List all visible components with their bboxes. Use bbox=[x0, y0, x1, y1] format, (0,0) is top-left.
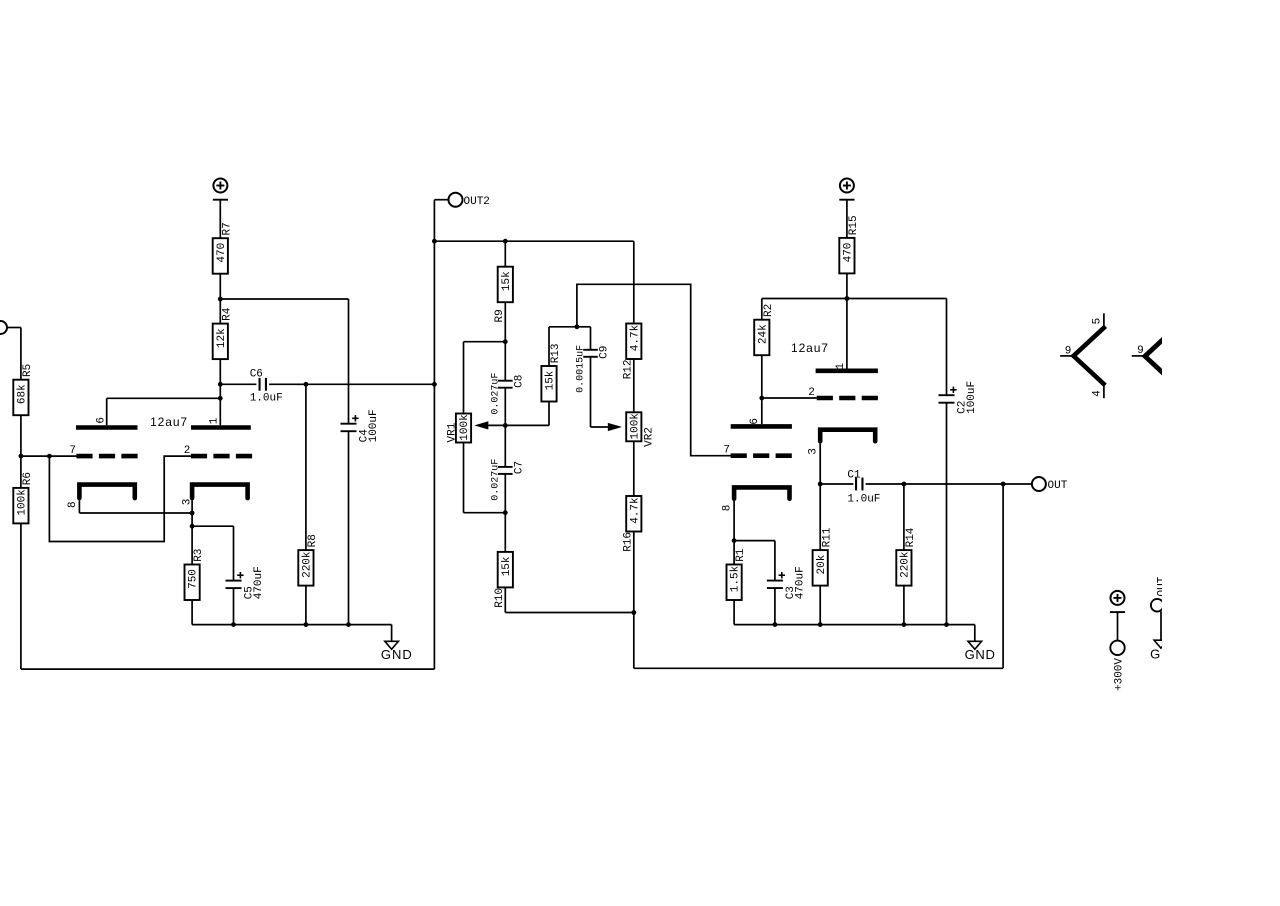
junction C5 rail bbox=[231, 622, 236, 627]
junction cathodes bbox=[190, 511, 195, 516]
wire down to C2 bbox=[946, 299, 948, 396]
svg-text:6: 6 bbox=[749, 418, 761, 425]
svg-text:8: 8 bbox=[722, 505, 734, 512]
svg-text:R10: R10 bbox=[494, 588, 506, 608]
svg-text:15k: 15k bbox=[501, 271, 513, 291]
wire VR2 to R16 bbox=[633, 441, 635, 496]
svg-text:470uF: 470uF bbox=[253, 566, 265, 599]
svg-text:R7: R7 bbox=[221, 222, 233, 235]
svg-text:220k: 220k bbox=[900, 551, 912, 578]
capacitor C7 bbox=[498, 466, 513, 468]
wire to C5 bbox=[192, 525, 233, 527]
junction R8 top bbox=[304, 382, 309, 387]
wire cathode8 right down bbox=[733, 501, 735, 541]
clipped connector circle bbox=[1151, 599, 1164, 612]
junction VR1 top bbox=[503, 339, 508, 344]
wire to R1 bbox=[733, 541, 735, 565]
wire C7 down bbox=[504, 474, 506, 513]
svg-text:12au7: 12au7 bbox=[791, 341, 829, 355]
junction R7/R4/C4 bbox=[218, 297, 223, 302]
wire to C7 bbox=[504, 425, 506, 467]
plate pin1 left tube bbox=[191, 425, 251, 430]
svg-text:2: 2 bbox=[184, 445, 191, 457]
power +V right bbox=[840, 179, 854, 193]
svg-text:R1: R1 bbox=[735, 548, 747, 562]
wire cathode3 down bbox=[191, 500, 193, 526]
connector OUT2 bbox=[449, 193, 463, 207]
resistor R10 bbox=[498, 552, 513, 588]
svg-text:470uF: 470uF bbox=[794, 566, 806, 599]
connector +300V bbox=[1110, 641, 1124, 655]
svg-text:20k: 20k bbox=[816, 554, 828, 574]
cathode pin8 right tube bbox=[734, 487, 789, 498]
input connector bbox=[0, 321, 7, 334]
junction C6 line bbox=[432, 382, 437, 387]
plate pin1 right tube bbox=[816, 368, 878, 373]
svg-text:24k: 24k bbox=[757, 324, 769, 344]
wire R5 to grid node bbox=[20, 415, 22, 456]
svg-text:R11: R11 bbox=[821, 527, 833, 547]
svg-text:C1: C1 bbox=[847, 469, 861, 481]
svg-text:12k: 12k bbox=[216, 328, 228, 348]
wire down to C9 bbox=[590, 327, 592, 350]
wire pin 5 bbox=[1103, 313, 1105, 327]
resistor R14 bbox=[896, 550, 911, 586]
wire to C2 bbox=[847, 298, 947, 300]
svg-text:3: 3 bbox=[808, 448, 820, 455]
capacitor C6 bbox=[258, 378, 260, 391]
wire power to R7 bbox=[219, 200, 221, 239]
wire C9 down bbox=[590, 357, 592, 427]
svg-text:C6: C6 bbox=[250, 368, 263, 380]
svg-text:750: 750 bbox=[188, 569, 200, 589]
junction R5/R6/grid bbox=[19, 454, 24, 459]
wire R9 to C8 node bbox=[504, 302, 506, 342]
svg-text:1.0uF: 1.0uF bbox=[847, 494, 880, 506]
svg-text:VR1: VR1 bbox=[446, 422, 458, 442]
wire R1 to rail bbox=[733, 600, 735, 625]
wire R16 down bbox=[633, 532, 635, 613]
wire C5 to rail bbox=[233, 588, 235, 625]
wire plate6 tie bbox=[107, 397, 221, 399]
svg-text:100k: 100k bbox=[629, 413, 641, 440]
wire rail to R9 bbox=[504, 241, 506, 267]
svg-text:OUT2: OUT2 bbox=[464, 196, 490, 208]
svg-text:15k: 15k bbox=[501, 556, 513, 576]
cathode pin8 left tube bbox=[79, 485, 134, 499]
wire to R11 bbox=[819, 484, 821, 550]
svg-text:GND: GND bbox=[381, 647, 413, 662]
power +300V symbol bbox=[1111, 591, 1125, 605]
svg-text:VR2: VR2 bbox=[643, 427, 655, 447]
junction R8 rail bbox=[304, 622, 309, 627]
resistor R3 bbox=[185, 565, 200, 601]
junction feedback/OUT bbox=[1001, 482, 1006, 487]
wire to GND bbox=[391, 625, 393, 642]
wire to VR2 wiper bbox=[591, 426, 611, 428]
plate pin6 left tube bbox=[76, 425, 138, 430]
wire R4 to C6 node bbox=[219, 359, 221, 384]
wire grid2 right bbox=[762, 397, 817, 399]
svg-text:1.0uF: 1.0uF bbox=[250, 393, 283, 405]
arrow VR1 wiper bbox=[477, 422, 487, 428]
wire R10 to R16 node bbox=[505, 612, 634, 614]
wire down to R5 bbox=[20, 328, 22, 380]
resistor R4 bbox=[213, 324, 228, 360]
ground left bbox=[385, 641, 399, 649]
wire to R3 bbox=[191, 526, 193, 564]
resistor R7 bbox=[213, 238, 228, 274]
wire to plate1 bbox=[219, 384, 221, 425]
cathode pin3 right tube bbox=[820, 430, 875, 442]
capacitor C8 bbox=[498, 380, 513, 382]
wire to C1 bbox=[820, 483, 853, 485]
svg-text:R16: R16 bbox=[622, 532, 634, 552]
svg-text:R8: R8 bbox=[307, 534, 319, 547]
wire to GND right bbox=[974, 625, 976, 642]
resistor R12 bbox=[626, 324, 641, 360]
wire to plate6 right bbox=[761, 398, 763, 424]
resistor R11 bbox=[813, 550, 828, 586]
svg-text:R13: R13 bbox=[550, 343, 562, 363]
wire down to C5 bbox=[233, 526, 235, 580]
junction C4 rail bbox=[346, 622, 351, 627]
wire C8 to wiper node bbox=[504, 388, 506, 426]
wire bottom feedback right bbox=[634, 667, 1003, 669]
resistor R16 bbox=[626, 496, 641, 532]
wire R13 to C9 node bbox=[549, 326, 577, 328]
wire to C8 bbox=[504, 342, 506, 381]
potentiometer VR2 bbox=[626, 412, 641, 441]
wire to OUT2 bbox=[434, 199, 448, 201]
wire to plate6 bbox=[106, 398, 108, 425]
power +V left bbox=[213, 179, 227, 193]
capacitor C5 bbox=[226, 580, 242, 582]
connector OUT bbox=[1032, 477, 1046, 491]
wire bottom feedback left bbox=[21, 668, 435, 670]
junction grid loop bbox=[47, 454, 52, 459]
wire R10 down bbox=[504, 587, 506, 612]
wire OUT2 rail bbox=[434, 240, 633, 242]
svg-text:C8: C8 bbox=[514, 375, 526, 388]
resistor R9 bbox=[498, 267, 513, 303]
svg-text:R2: R2 bbox=[763, 304, 775, 317]
junction R1/C3 bbox=[732, 538, 737, 543]
svg-text:4.7k: 4.7k bbox=[629, 497, 641, 524]
svg-text:0.0015uF: 0.0015uF bbox=[575, 345, 586, 393]
wire R6 down bbox=[20, 523, 22, 669]
wire R13 up bbox=[548, 327, 550, 366]
grid pin7 right tube bbox=[731, 453, 792, 458]
svg-text:R9: R9 bbox=[494, 309, 506, 322]
svg-text:12au7: 12au7 bbox=[150, 415, 188, 429]
junction R16 bottom bbox=[631, 610, 636, 615]
svg-text:+300V: +300V bbox=[1114, 658, 1126, 691]
wire OUT2 vertical bbox=[433, 200, 435, 669]
wire R3 to rail bbox=[191, 600, 193, 625]
heater symbol pins 4/5/9 bbox=[1074, 326, 1106, 385]
resistor R5 bbox=[13, 380, 28, 416]
junction plates bbox=[218, 396, 223, 401]
wire VR1 to C7 node bbox=[464, 512, 506, 514]
plate pin6 right tube bbox=[731, 424, 792, 429]
wire to R2 bbox=[762, 298, 847, 300]
wire down to VR1 bbox=[463, 342, 465, 414]
junction C1 line bbox=[818, 482, 823, 487]
svg-text:0.027uF: 0.027uF bbox=[491, 459, 502, 501]
wire C2 to rail bbox=[946, 403, 948, 625]
arrow VR2 wiper bbox=[609, 424, 619, 430]
wire VR1 bottom bbox=[463, 443, 465, 513]
junction wiper VR1 bbox=[503, 423, 508, 428]
svg-text:100uF: 100uF bbox=[966, 381, 978, 414]
svg-text:9: 9 bbox=[1065, 345, 1072, 357]
potentiometer VR1 bbox=[456, 414, 471, 443]
wire R8 to rail bbox=[305, 586, 307, 625]
capacitor C1 bbox=[855, 478, 857, 491]
junction R2/grid2/plate6 bbox=[759, 396, 764, 401]
svg-text:OUT: OUT bbox=[1048, 480, 1068, 492]
wire input to R5 bbox=[7, 327, 21, 329]
wire right ground rail bbox=[734, 624, 975, 626]
wire to C4 branch bbox=[220, 298, 348, 300]
wire grid2 loop bbox=[49, 456, 191, 541]
wire pin 9 heater2 bbox=[1132, 355, 1146, 357]
wire to C3 bbox=[734, 540, 775, 542]
wire cathode8 down bbox=[78, 500, 80, 513]
svg-text:R12: R12 bbox=[622, 359, 634, 379]
wire to R8 bbox=[305, 384, 307, 550]
wire to plate1 right bbox=[846, 299, 848, 369]
grid pin2 left tube bbox=[191, 454, 252, 459]
resistor R1 bbox=[727, 565, 742, 601]
wire down to feedback bbox=[633, 613, 635, 669]
wire feedback up to OUT bbox=[1002, 484, 1004, 668]
heater symbol 2 clipped bbox=[1145, 337, 1166, 376]
wire to R14 bbox=[903, 484, 905, 550]
svg-text:220k: 220k bbox=[302, 551, 314, 578]
wire R7 to R4 bbox=[219, 274, 221, 324]
resistor R13 bbox=[541, 366, 556, 402]
grid pin7 left tube bbox=[76, 454, 137, 459]
svg-text:R14: R14 bbox=[905, 527, 917, 547]
svg-text:C9: C9 bbox=[599, 346, 611, 359]
wire rail to R12 bbox=[633, 241, 635, 323]
resistor R2 bbox=[754, 320, 769, 356]
wire to grid pin7 bbox=[21, 455, 77, 457]
wire C1 to OUT bbox=[866, 483, 1032, 485]
svg-text:R3: R3 bbox=[193, 549, 205, 562]
svg-text:8: 8 bbox=[67, 501, 79, 508]
svg-text:5: 5 bbox=[1092, 318, 1104, 325]
wire R14 to rail bbox=[903, 586, 905, 625]
svg-text:R15: R15 bbox=[848, 215, 860, 235]
junction R13/C9 bbox=[575, 324, 580, 329]
svg-text:68k: 68k bbox=[17, 384, 29, 404]
junction R3/C5 bbox=[190, 524, 195, 529]
wire cathode8 to node3 bbox=[79, 512, 192, 514]
svg-text:470: 470 bbox=[216, 243, 228, 263]
wire power to R15 bbox=[846, 200, 848, 238]
wire wiper node to R13 bbox=[505, 424, 549, 426]
wire to R10 bbox=[504, 513, 506, 552]
svg-text:1: 1 bbox=[209, 417, 221, 424]
capacitor C2 bbox=[939, 394, 955, 396]
svg-text:100k: 100k bbox=[17, 489, 29, 516]
wire pin 9 bbox=[1060, 355, 1073, 357]
wire R12 to VR2 bbox=[633, 359, 635, 412]
wire coupling to right grid7 bbox=[577, 284, 731, 455]
junction C3 rail bbox=[773, 622, 778, 627]
clipped ground symbol bbox=[1154, 640, 1168, 648]
junction R15/R2/C2/plate bbox=[845, 296, 850, 301]
junction plate/C6 bbox=[218, 382, 223, 387]
wire to C6 bbox=[220, 383, 256, 385]
junction R9 rail bbox=[503, 239, 508, 244]
wire R2 to grid2 bbox=[761, 355, 763, 398]
ground right bbox=[968, 641, 982, 649]
svg-text:R5: R5 bbox=[22, 364, 34, 377]
svg-text:0.027uF: 0.027uF bbox=[491, 373, 502, 415]
junction C7/VR1/R10 bbox=[503, 510, 508, 515]
wire node to R6 bbox=[20, 456, 22, 488]
resistor R6 bbox=[13, 488, 28, 524]
svg-text:9: 9 bbox=[1137, 345, 1144, 357]
wire to C9 bbox=[577, 326, 591, 328]
clipped wire bbox=[1160, 611, 1162, 640]
svg-text:R4: R4 bbox=[221, 307, 233, 321]
svg-text:2: 2 bbox=[808, 387, 815, 399]
wire wiper VR1 bbox=[487, 424, 506, 426]
svg-text:7: 7 bbox=[723, 445, 730, 457]
capacitor C9 bbox=[583, 349, 598, 351]
wire R15 down bbox=[846, 273, 848, 298]
wire C6 to OUT2 net bbox=[269, 383, 434, 385]
wire pin 4 bbox=[1103, 385, 1105, 398]
capacitor C4 bbox=[341, 423, 357, 425]
junction R11 rail bbox=[818, 622, 823, 627]
junction R14 top bbox=[902, 482, 907, 487]
wire up to R13 bbox=[548, 402, 550, 426]
svg-text:4.7k: 4.7k bbox=[629, 324, 641, 351]
capacitor C3 bbox=[767, 580, 783, 582]
wire +300V bbox=[1117, 612, 1119, 640]
wire down to R2 bbox=[761, 299, 763, 320]
wire C3 to rail bbox=[774, 588, 776, 625]
junction R14 rail bbox=[902, 622, 907, 627]
svg-text:1: 1 bbox=[835, 363, 847, 370]
junction C2 rail bbox=[944, 622, 949, 627]
wire down to C3 bbox=[774, 541, 776, 581]
wire to VR1 bbox=[464, 341, 506, 343]
svg-text:GND: GND bbox=[965, 647, 996, 662]
grid pin2 right tube bbox=[817, 396, 878, 401]
svg-text:1.5k: 1.5k bbox=[730, 565, 742, 592]
cathode pin3 left tube bbox=[192, 485, 248, 499]
svg-text:470: 470 bbox=[843, 243, 855, 263]
wire down to C4 bbox=[348, 299, 350, 424]
svg-text:C7: C7 bbox=[514, 461, 526, 474]
svg-text:4: 4 bbox=[1092, 390, 1104, 397]
svg-text:100k: 100k bbox=[459, 414, 471, 441]
svg-text:6: 6 bbox=[95, 417, 107, 424]
svg-text:R6: R6 bbox=[22, 472, 34, 485]
svg-text:100uF: 100uF bbox=[368, 409, 380, 442]
wire R11 to rail bbox=[819, 586, 821, 625]
svg-text:15k: 15k bbox=[545, 370, 557, 390]
svg-text:7: 7 bbox=[69, 445, 76, 457]
wire left ground rail bbox=[192, 624, 392, 626]
junction OUT2 rail bbox=[432, 239, 437, 244]
wire C4 to rail bbox=[348, 431, 350, 624]
wire cathode3 down bbox=[819, 443, 821, 484]
resistor R8 bbox=[298, 550, 313, 586]
resistor R15 bbox=[839, 238, 854, 274]
